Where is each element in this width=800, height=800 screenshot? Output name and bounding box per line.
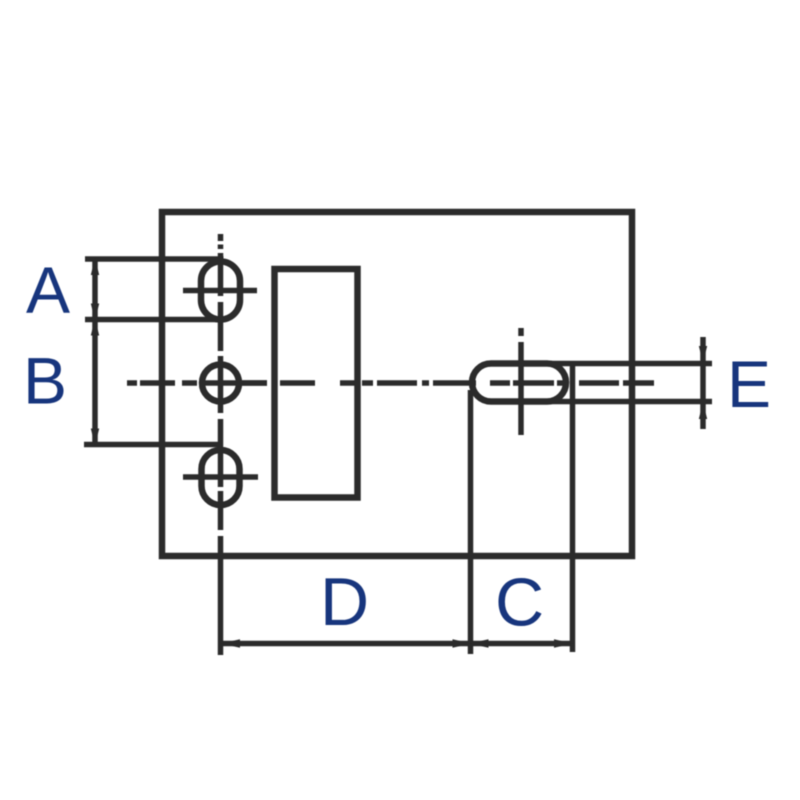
dimension A top extension line <box>85 256 224 262</box>
dimension B bottom extension line <box>84 442 221 448</box>
bottom dimension line for D and C <box>222 641 572 647</box>
vertical centerline through slot <box>518 328 524 435</box>
dimension A bottom / B top extension line <box>85 317 224 323</box>
arrow tick D left <box>221 639 240 647</box>
svg-text:B: B <box>23 344 67 418</box>
slot S1 right obround slot <box>472 364 566 402</box>
arrow ticks at D/C boundary <box>453 639 472 647</box>
hole H3 horizontal crosshair <box>183 474 258 480</box>
arrow tick at B bottom <box>91 429 99 446</box>
vertical centerline through holes <box>218 234 224 655</box>
svg-text:A: A <box>26 253 70 327</box>
left vertical dimension line for A and B <box>92 259 98 445</box>
inner rectangular cutout <box>275 269 358 498</box>
svg-text:D: D <box>320 564 369 640</box>
hole H2 horizontal crosshair <box>240 380 267 386</box>
dimension E bottom extension line <box>505 399 712 405</box>
svg-text:E: E <box>727 347 771 421</box>
extension line from slot left edge down <box>468 390 474 654</box>
hole H2 middle round hole <box>202 365 239 402</box>
outer plate outline <box>162 212 632 556</box>
hole H1 horizontal crosshair <box>183 288 257 294</box>
dimension E vertical dimension line <box>700 337 706 429</box>
arrow tick C right <box>554 639 573 647</box>
dimension E top extension line <box>505 361 712 367</box>
arrow tick E top <box>699 346 707 363</box>
horizontal centerline <box>127 380 654 386</box>
svg-text:C: C <box>495 565 544 641</box>
arrow tick E bottom <box>699 403 707 420</box>
hole H1 top slotted hole <box>201 262 240 320</box>
arrow tick at A top <box>91 258 99 275</box>
extension line from slot right edge down <box>570 361 576 652</box>
hole H3 bottom slotted hole <box>202 450 240 505</box>
arrow ticks at A/B boundary <box>91 304 99 321</box>
